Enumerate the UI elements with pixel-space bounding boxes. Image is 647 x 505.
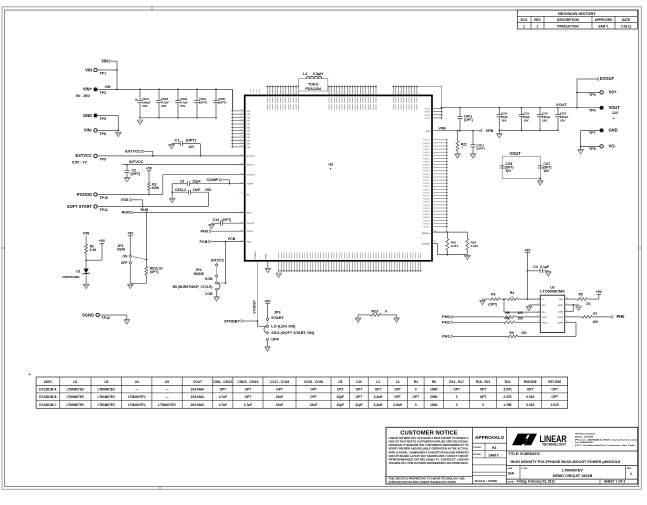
svg-text:R4: R4 <box>510 291 514 295</box>
svg-text:OPT: OPT <box>480 395 487 399</box>
svg-text:HOWEVER, IT REMAINS THE CUSTOM: HOWEVER, IT REMAINS THE CUSTOMER’S RESPO… <box>389 443 469 447</box>
svg-text:0: 0 <box>456 403 458 407</box>
svg-text:(OPT): (OPT) <box>199 101 207 105</box>
svg-text:205K: 205K <box>430 395 438 399</box>
svg-text:CIRCUIT BOARD LAYOUT MAY SIGNI: CIRCUIT BOARD LAYOUT MAY SIGNIFICANTLY A… <box>389 454 469 458</box>
svg-text:APP ENG: APP ENG <box>473 453 481 456</box>
svg-text:OPT: OPT <box>453 388 460 392</box>
svg-text:Fax: (408)434-0507: Fax: (408)434-0507 <box>575 441 594 444</box>
svg-text:LTM4607EV: LTM4607EV <box>562 468 583 472</box>
svg-text:CO25 - CO26: CO25 - CO26 <box>304 380 324 384</box>
svg-text:50V: 50V <box>180 104 185 108</box>
svg-text:16V: 16V <box>523 118 528 122</box>
svg-text:PGNDS: PGNDS <box>423 205 430 207</box>
svg-text:DEMO CIRCUIT 1601B: DEMO CIRCUIT 1601B <box>553 474 593 478</box>
svg-text:ON: ON <box>122 255 128 259</box>
svg-text:PGNDS: PGNDS <box>423 220 430 222</box>
svg-text:R5: R5 <box>432 380 436 384</box>
svg-text:22uF: 22uF <box>276 403 283 407</box>
svg-text:PGNDS: PGNDS <box>423 227 430 229</box>
svg-text:TP5: TP5 <box>100 117 107 121</box>
svg-text:0: 0 <box>456 395 458 399</box>
svg-text:+5V: +5V <box>524 248 531 252</box>
svg-text:R55-R56: R55-R56 <box>524 380 537 384</box>
svg-text:10nF: 10nF <box>193 188 201 192</box>
svg-text:Friday, February 03, 2012: Friday, February 03, 2012 <box>517 479 555 483</box>
svg-text:PLLLPF: PLLLPF <box>247 223 256 225</box>
svg-text:VIN: VIN <box>247 137 251 139</box>
svg-text:(OPT): (OPT) <box>222 218 233 222</box>
svg-text:2.37K: 2.37K <box>503 395 512 399</box>
svg-text:OPT: OPT <box>310 388 317 392</box>
svg-text:OPT: OPT <box>480 388 487 392</box>
svg-text:CUSTOMER NOTICE: CUSTOMER NOTICE <box>400 430 458 436</box>
svg-text:+5V: +5V <box>146 167 153 171</box>
svg-text:OPT: OPT <box>245 388 252 392</box>
svg-text:PGNDS: PGNDS <box>423 189 430 191</box>
svg-text:FCB: FCB <box>247 242 252 244</box>
svg-text:OFF: OFF <box>121 261 127 265</box>
svg-text:0: 0 <box>415 403 417 407</box>
svg-text:OPT: OPT <box>394 388 401 392</box>
svg-text:PGNDS: PGNDS <box>423 143 430 145</box>
svg-text:16V: 16V <box>189 145 196 149</box>
svg-text:VIN-: VIN- <box>84 128 93 133</box>
svg-text:SENSE+: SENSE+ <box>422 233 431 235</box>
svg-text:LTM4607EV: LTM4607EV <box>98 388 116 392</box>
svg-text:OUTA: OUTA <box>557 316 563 319</box>
svg-text:PCB DES: PCB DES <box>473 447 481 449</box>
svg-text:CSS1,2: CSS1,2 <box>175 188 186 192</box>
svg-text:154K: 154K <box>430 403 438 407</box>
svg-text:INTVCC: INTVCC <box>211 258 225 262</box>
svg-text:VIN: VIN <box>247 121 251 123</box>
svg-text:PGNDS: PGNDS <box>423 186 430 188</box>
svg-text:L4: L4 <box>396 380 400 384</box>
svg-text:OPT: OPT <box>310 395 317 399</box>
svg-text:APPROVALS: APPROVALS <box>475 435 504 440</box>
svg-text:CO17 - CO18: CO17 - CO18 <box>270 380 290 384</box>
svg-text:20A MAX: 20A MAX <box>191 403 206 407</box>
svg-text:CIN1 - CIN12: CIN1 - CIN12 <box>213 380 232 384</box>
svg-text:PGNDS: PGNDS <box>423 171 430 173</box>
svg-text:LTM4607EV: LTM4607EV <box>67 403 85 407</box>
svg-text:COMP: COMP <box>247 184 254 186</box>
svg-text:DC1601B-C: DC1601B-C <box>39 403 57 407</box>
svg-text:0: 0 <box>415 388 417 392</box>
svg-text:OPT: OPT <box>220 388 227 392</box>
svg-text:VIN: VIN <box>247 147 251 149</box>
svg-text:(OPT): (OPT) <box>186 137 197 142</box>
svg-text:100: 100 <box>518 317 524 321</box>
svg-text:3.3µH: 3.3µH <box>313 72 323 76</box>
svg-text:VFB: VFB <box>426 131 431 133</box>
svg-text:PGOOD: PGOOD <box>247 175 255 177</box>
svg-text:100: 100 <box>518 311 524 315</box>
svg-text:0.015: 0.015 <box>526 403 534 407</box>
svg-text:SHEET 1 OF 3: SHEET 1 OF 3 <box>604 479 625 483</box>
svg-text:U3: U3 <box>104 380 108 384</box>
svg-text:4.7uF: 4.7uF <box>244 403 252 407</box>
svg-text:PGNDS: PGNDS <box>423 180 430 182</box>
svg-text:PGNDS: PGNDS <box>423 146 430 148</box>
svg-text:PH: PH <box>542 312 545 314</box>
svg-text:PGNDS: PGNDS <box>423 158 430 160</box>
svg-text:DC1601B-A: DC1601B-A <box>39 388 57 392</box>
svg-text:DATE: DATE <box>622 18 630 22</box>
svg-text:PGNDS: PGNDS <box>423 208 430 210</box>
svg-text:1630 McCarthy Blvd.: 1630 McCarthy Blvd. <box>575 433 596 436</box>
svg-text:(OPT): (OPT) <box>476 147 484 151</box>
svg-text:SGND: SGND <box>266 253 268 259</box>
svg-text:LTM4607EV: LTM4607EV <box>158 403 176 407</box>
svg-text:VOUT: VOUT <box>424 118 430 120</box>
svg-text:COMP: COMP <box>207 177 219 182</box>
svg-text:15A MAX: 15A MAX <box>191 395 206 399</box>
svg-text:DIV: DIV <box>542 305 546 307</box>
svg-text:154K: 154K <box>430 388 438 392</box>
svg-text:LTM4607EV: LTM4607EV <box>128 403 146 407</box>
svg-text:SOFT START: SOFT START <box>67 204 93 209</box>
svg-text:4.7uF: 4.7uF <box>219 403 227 407</box>
svg-text:0.015: 0.015 <box>526 395 534 399</box>
svg-text:16V: 16V <box>542 118 547 122</box>
svg-text:VOUT: VOUT <box>424 112 430 114</box>
svg-text:(OPT): (OPT) <box>131 172 142 176</box>
svg-text:OPT: OPT <box>356 395 363 399</box>
svg-text:22uF: 22uF <box>276 395 283 399</box>
svg-text:VIN: VIN <box>247 127 251 129</box>
svg-text:2: 2 <box>538 303 539 305</box>
svg-text:OPT: OPT <box>245 395 252 399</box>
svg-text:DCM: DCM <box>205 277 213 281</box>
svg-text:PGNDS: PGNDS <box>423 183 430 185</box>
svg-text:C1: C1 <box>175 137 181 142</box>
svg-text:APPLICATION. COMPONENT SUBSTI: APPLICATION. COMPONENT SUBSTITUTION AND … <box>389 450 469 454</box>
svg-text:(OPT): (OPT) <box>464 118 473 122</box>
svg-text:TP12: TP12 <box>102 316 111 320</box>
svg-text:OPT: OPT <box>412 395 419 399</box>
svg-text:PGNDS: PGNDS <box>423 214 430 216</box>
svg-text:PH2: PH2 <box>442 320 450 325</box>
svg-text:EXTVCC: EXTVCC <box>76 153 93 158</box>
svg-text:C14: C14 <box>213 218 220 222</box>
svg-text:GND: GND <box>609 128 618 133</box>
svg-text:TITLE: SCHEMATIC: TITLE: SCHEMATIC <box>509 452 541 456</box>
svg-text:RUN: RUN <box>117 248 125 252</box>
svg-text:OPT: OPT <box>527 388 534 392</box>
svg-text:(OPT): (OPT) <box>218 101 226 105</box>
svg-text:+5V: +5V <box>99 239 106 243</box>
svg-text:TP1: TP1 <box>100 71 107 75</box>
svg-text:+5V: +5V <box>127 232 134 236</box>
svg-text:PGNDS: PGNDS <box>423 174 430 176</box>
svg-text:GND: GND <box>558 311 563 313</box>
svg-text:BS (BURST/SKIP_CYCLE): BS (BURST/SKIP_CYCLE) <box>173 285 213 289</box>
svg-text:PGNDS: PGNDS <box>423 165 430 167</box>
svg-text:PERFORMANCE OR RELIABILITY. C: PERFORMANCE OR RELIABILITY. CONTACT LINE… <box>389 458 469 462</box>
svg-text:VOUT: VOUT <box>193 380 202 384</box>
svg-text:LTC Confidential-For Customer: LTC Confidential-For Customer Use Only <box>575 444 636 447</box>
svg-text:R9: R9 <box>510 331 514 335</box>
svg-text:U1: U1 <box>73 380 77 384</box>
svg-text:TECHNOLOGY: TECHNOLOGY <box>542 442 567 446</box>
svg-text:R22: R22 <box>505 380 511 384</box>
svg-text:LINEAR TECHNOLOGY HAS MADE A B: LINEAR TECHNOLOGY HAS MADE A BEST EFFORT… <box>389 436 469 440</box>
svg-text:PGNDS: PGNDS <box>423 223 430 225</box>
svg-text:R4: R4 <box>414 380 418 384</box>
svg-text:R5: R5 <box>579 292 583 296</box>
svg-text:16V: 16V <box>560 118 565 122</box>
svg-text:REV: REV <box>534 18 541 22</box>
svg-text:22µF: 22µF <box>355 403 362 407</box>
svg-text:OPT: OPT <box>551 388 558 392</box>
svg-text:PGNDS: PGNDS <box>423 152 430 154</box>
svg-text:HIGH DENSITY POLYPHASE BUCK-BO: HIGH DENSITY POLYPHASE BUCK-BOOST POWER … <box>511 460 622 464</box>
svg-text:CIN15 - CIN16: CIN15 - CIN16 <box>238 380 259 384</box>
svg-text:JP3: JP3 <box>274 309 282 314</box>
svg-text:PGNDS: PGNDS <box>423 155 430 157</box>
svg-text:VSS: VSS <box>121 197 129 202</box>
svg-text:Milpitas, CA 95035: Milpitas, CA 95035 <box>575 435 594 438</box>
svg-text:12V: 12V <box>612 111 619 115</box>
svg-text:PGNDS: PGNDS <box>423 196 430 198</box>
svg-text:VO-: VO- <box>609 144 617 149</box>
svg-text:HZ: HZ <box>492 446 496 450</box>
svg-text:PGNDS: PGNDS <box>423 168 430 170</box>
svg-text:R6: R6 <box>506 311 510 315</box>
svg-text:ASSY: ASSY <box>44 380 54 384</box>
svg-text:APPROVED: APPROVED <box>595 18 614 22</box>
svg-text:C10: C10 <box>356 380 362 384</box>
svg-text:TP2: TP2 <box>100 91 107 95</box>
svg-text:U5: U5 <box>165 380 169 384</box>
svg-text:L3: L3 <box>376 380 380 384</box>
svg-text:(OPT): (OPT) <box>150 270 159 274</box>
svg-text:C8: C8 <box>338 380 342 384</box>
svg-text:OUT1: OUT1 <box>542 317 548 319</box>
svg-text:10A MAX: 10A MAX <box>191 388 206 392</box>
svg-text:DATE:: DATE: <box>508 480 515 483</box>
svg-text:6V - 36V: 6V - 36V <box>76 94 91 98</box>
svg-text:CCM: CCM <box>205 292 213 296</box>
svg-text:7-28-11: 7-28-11 <box>621 24 632 28</box>
svg-text:IC NO.: IC NO. <box>522 468 529 470</box>
svg-text:PGNDS: PGNDS <box>423 177 430 179</box>
svg-text:R7: R7 <box>593 312 597 316</box>
svg-text:LTC6908CMS: LTC6908CMS <box>540 289 565 294</box>
svg-text:SIZE: SIZE <box>508 468 513 470</box>
svg-text:R22: R22 <box>461 142 467 146</box>
svg-text:5.5V - 7V: 5.5V - 7V <box>72 161 88 165</box>
svg-text:16V: 16V <box>543 169 550 173</box>
svg-text:PLLIN: PLLIN <box>247 231 254 233</box>
svg-text:STNDBY: STNDBY <box>224 318 240 323</box>
svg-text:GND: GND <box>83 113 92 118</box>
svg-text:D1: D1 <box>76 270 80 274</box>
svg-text:TP8: TP8 <box>589 147 596 151</box>
svg-text:L1: L1 <box>303 72 307 76</box>
svg-text:+5V: +5V <box>264 299 271 303</box>
svg-text:1: 1 <box>538 297 539 299</box>
svg-text:OPT: OPT <box>356 388 363 392</box>
svg-text:CIRCUIT THAT MEETS CUSTOMER-SU: CIRCUIT THAT MEETS CUSTOMER-SUPPLIED SPE… <box>389 439 469 443</box>
svg-text:0: 0 <box>482 403 484 407</box>
svg-text:TP11: TP11 <box>100 208 108 212</box>
svg-text:VIN: VIN <box>247 117 251 119</box>
svg-text:4.7uF: 4.7uF <box>219 395 227 399</box>
svg-text:3.57K: 3.57K <box>503 388 512 392</box>
svg-text:SGND: SGND <box>82 312 94 317</box>
svg-text:VIN: VIN <box>85 67 92 72</box>
svg-text:R18 - R21: R18 - R21 <box>476 380 491 384</box>
svg-text:1%: 1% <box>586 302 591 306</box>
svg-text:1: 1 <box>523 24 525 28</box>
svg-text:PGNDS: PGNDS <box>423 192 430 194</box>
svg-text:VIN: VIN <box>247 144 251 146</box>
svg-text:OUTB: OUTB <box>557 322 563 324</box>
svg-text:SAM Y.: SAM Y. <box>489 453 500 457</box>
svg-text:TOKO: TOKO <box>308 83 319 87</box>
svg-text:22µF: 22µF <box>337 403 344 407</box>
svg-text:0: 0 <box>385 310 387 314</box>
svg-text:SAM Y.: SAM Y. <box>598 24 609 28</box>
svg-text:VIN: VIN <box>247 131 251 133</box>
svg-text:OFF: OFF <box>271 336 279 341</box>
svg-text:0.015: 0.015 <box>551 403 559 407</box>
svg-text:PGNDS: PGNDS <box>423 217 430 219</box>
svg-text:LTM4607EV: LTM4607EV <box>67 388 85 392</box>
svg-text:VIN: VIN <box>83 231 90 236</box>
svg-text:PGNDS: PGNDS <box>423 161 430 163</box>
svg-text:FCB: FCB <box>200 239 208 244</box>
svg-text:PGNDS: PGNDS <box>423 140 430 142</box>
svg-text:MOD: MOD <box>558 305 563 307</box>
svg-text:VFB: VFB <box>439 127 447 131</box>
svg-text:OPT: OPT <box>337 388 344 392</box>
svg-text:OUT2: OUT2 <box>542 322 548 324</box>
svg-text:PGNDS: PGNDS <box>423 211 430 213</box>
svg-text:OPT: OPT <box>375 388 382 392</box>
svg-text:+5V: +5V <box>596 290 603 294</box>
svg-text:SCALE = NONE: SCALE = NONE <box>475 479 498 483</box>
svg-text:EVOUT: EVOUT <box>600 76 615 81</box>
svg-text:LO (LDO ON): LO (LDO ON) <box>271 323 296 328</box>
svg-text:ECO: ECO <box>521 18 528 22</box>
svg-text:VOUT: VOUT <box>424 109 430 111</box>
svg-text:FDA1254: FDA1254 <box>305 87 321 91</box>
svg-text:100K: 100K <box>151 186 159 190</box>
svg-text:22pF: 22pF <box>192 179 201 183</box>
svg-text:OPT: OPT <box>394 395 401 399</box>
svg-text:TP7: TP7 <box>589 131 596 135</box>
svg-text:C4: C4 <box>533 265 538 269</box>
svg-text:16V: 16V <box>501 118 506 122</box>
svg-text:(OPT): (OPT) <box>488 303 497 307</box>
svg-text:VFB: VFB <box>486 128 494 133</box>
svg-text:1: 1 <box>630 472 632 476</box>
svg-text:TP10: TP10 <box>100 196 109 200</box>
svg-text:3: 3 <box>538 310 539 312</box>
svg-text:100: 100 <box>593 320 599 324</box>
svg-text:3.3uH: 3.3uH <box>374 395 383 399</box>
svg-text:PGOOD: PGOOD <box>77 192 92 197</box>
svg-text:R3: R3 <box>491 293 495 297</box>
svg-text:1.78K: 1.78K <box>503 403 512 407</box>
svg-text:THIS CIRCUIT IS PROPRIETARY TO: THIS CIRCUIT IS PROPRIETARY TO LINEAR TE… <box>389 476 465 480</box>
svg-text:TECHNOLOGY APPLICATIONS ENGINE: TECHNOLOGY APPLICATIONS ENGINEERING FOR … <box>389 461 469 465</box>
svg-text:SENSE-: SENSE- <box>422 244 430 246</box>
svg-text:STNDBY: STNDBY <box>252 299 256 314</box>
svg-text:PH1: PH1 <box>442 334 450 339</box>
svg-text:VIN: VIN <box>247 124 251 126</box>
svg-text:VSS: VSS <box>205 188 212 192</box>
svg-text:SUPPLIED FOR USE WITH LINEAR T: SUPPLIED FOR USE WITH LINEAR TECHNOLOGY … <box>389 480 457 484</box>
svg-text:50V: 50V <box>161 104 166 108</box>
svg-text:R57-R58: R57-R58 <box>548 380 561 384</box>
svg-text:VIN: VIN <box>247 134 251 136</box>
svg-text:PGNDS: PGNDS <box>423 202 430 204</box>
svg-text:PH0: PH0 <box>617 314 626 319</box>
svg-text:TP4: TP4 <box>589 108 596 112</box>
svg-text:C3: C3 <box>180 179 185 183</box>
svg-text:U4: U4 <box>135 380 139 384</box>
svg-text:RUN: RUN <box>247 212 252 214</box>
svg-text:RUN: RUN <box>122 210 131 215</box>
svg-text:VOUT: VOUT <box>556 102 567 107</box>
svg-text:R8: R8 <box>506 317 510 321</box>
svg-text:PH0: PH0 <box>442 314 450 319</box>
svg-text:VERIFY PROPER AND RELIABLE OPE: VERIFY PROPER AND RELIABLE OPERATION IN … <box>389 447 469 451</box>
svg-text:2: 2 <box>136 258 137 260</box>
svg-text:DESCRIPTION: DESCRIPTION <box>557 18 579 22</box>
svg-text:A5: A5 <box>434 240 436 243</box>
svg-text:22uF: 22uF <box>310 403 317 407</box>
svg-text:R23: R23 <box>372 310 379 314</box>
svg-text:PH0: PH0 <box>200 228 208 233</box>
svg-text:REVISION HISTORY: REVISION HISTORY <box>558 11 596 16</box>
svg-text:VIN+: VIN+ <box>83 87 93 92</box>
svg-text:REV.: REV. <box>627 468 632 470</box>
svg-text:6.1K: 6.1K <box>90 248 97 252</box>
svg-text:N/A: N/A <box>508 472 515 476</box>
svg-text:EXTVCC: EXTVCC <box>247 156 256 158</box>
svg-text:DC1601B-B: DC1601B-B <box>39 395 57 399</box>
svg-text:TP6: TP6 <box>100 132 107 136</box>
svg-text:STNDBY: STNDBY <box>255 250 257 259</box>
svg-text:VIN: VIN <box>247 140 251 142</box>
svg-text:TP9: TP9 <box>100 157 107 161</box>
svg-text:SSO (SOFT START ON): SSO (SOFT START ON) <box>271 330 314 335</box>
svg-text:3.3uH: 3.3uH <box>374 403 383 407</box>
svg-text:CMDZ5238B: CMDZ5238B <box>62 275 80 279</box>
svg-text:50V: 50V <box>142 104 147 108</box>
svg-text:0.015: 0.015 <box>471 244 479 248</box>
svg-text:PGNDS: PGNDS <box>423 149 430 151</box>
svg-text:RUN: RUN <box>141 208 149 212</box>
svg-text:16V: 16V <box>506 169 513 173</box>
svg-text:R14 - R17: R14 - R17 <box>449 380 464 384</box>
svg-text:EXTVCC: EXTVCC <box>125 149 141 154</box>
svg-text:LTM4607EV: LTM4607EV <box>98 403 116 407</box>
svg-text:VIN: VIN <box>101 58 108 63</box>
svg-text:TP3: TP3 <box>589 93 596 97</box>
svg-text:0.015: 0.015 <box>451 244 459 248</box>
svg-text:1: 1 <box>537 24 539 28</box>
svg-text:3.3uH: 3.3uH <box>393 403 402 407</box>
svg-text:OPT: OPT <box>276 388 283 392</box>
svg-text:FCB: FCB <box>228 237 236 241</box>
